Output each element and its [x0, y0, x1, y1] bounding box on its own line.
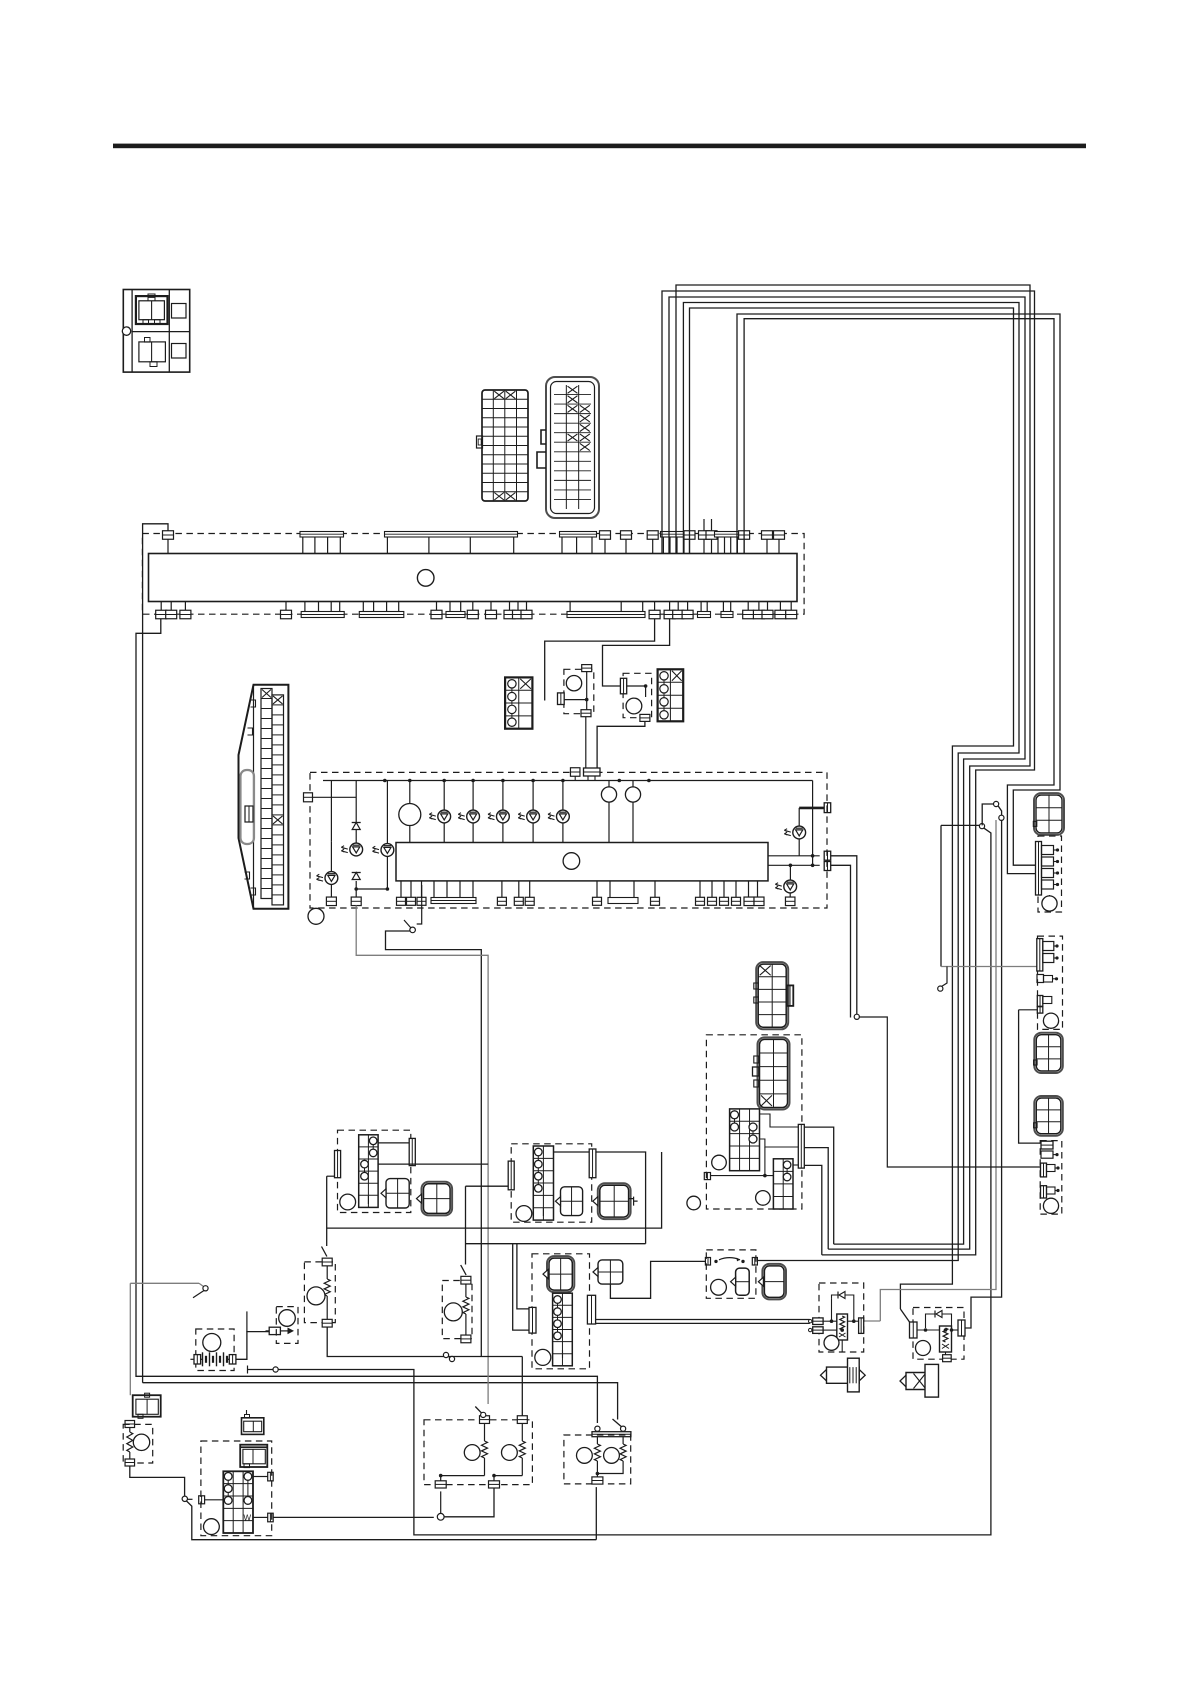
meter case ground circle: [308, 908, 324, 924]
relay unit R1 (top left): [123, 290, 189, 373]
flasher relay 2 dashed box: [442, 1281, 472, 1339]
horn top terminal: [125, 1421, 135, 1428]
flasher relay 1 dashed box: [304, 1262, 335, 1323]
flasher 1 coil wire: [326, 1266, 328, 1279]
diode unit D1 top terminal: [582, 665, 592, 672]
wire battery to fuse: [236, 1332, 269, 1360]
battery dashed box: [196, 1329, 234, 1371]
centre switch connector 1: [547, 1256, 574, 1292]
switch M wires: [554, 1151, 590, 1153]
harness top pin group 1: [300, 532, 344, 538]
centre switch dashed box: [532, 1254, 590, 1369]
starter relay coil: [940, 1326, 952, 1352]
wire to starter relay: [965, 820, 1002, 1328]
main switch ground circle: [204, 1519, 220, 1535]
ignition coil unit 1 dashed box: [1038, 836, 1062, 912]
harness bottom pin j1: [285, 602, 287, 611]
switch L ground circle: [340, 1194, 356, 1210]
engine stop connector: [736, 1268, 750, 1295]
main switch right terminal 2: [268, 1513, 274, 1522]
ignition coil 2 plug circle: [1043, 1013, 1058, 1028]
horn relay ground circle: [824, 1335, 839, 1350]
page header rule: [113, 144, 1086, 149]
starter relay right bar: [958, 1320, 965, 1336]
wire meter output 1 down: [831, 856, 857, 1014]
turn lamp 2: [521, 1424, 523, 1442]
warning LED w1: [330, 841, 332, 871]
left rail wire 1 lower run: [143, 1383, 618, 1420]
horn coil: [129, 1428, 131, 1433]
horn relay coil: [837, 1314, 848, 1340]
ignition coil 1 connector bar: [1036, 842, 1042, 896]
switch M right bar: [589, 1149, 596, 1178]
wires CDI to harness loops: [804, 1127, 833, 1244]
long crossover wire: [327, 1152, 662, 1228]
ignition switch grid: [223, 1471, 253, 1533]
bullet connector pair (harness right): [941, 824, 979, 826]
meter bottom pin row: [400, 881, 402, 897]
flasher 1 switch: [326, 1176, 328, 1246]
CDI connector right tab: [787, 985, 794, 1006]
harness top pin small g: [766, 540, 768, 554]
CDI right terminal bar: [798, 1124, 804, 1168]
turn lamp switch arm: [475, 1407, 481, 1414]
wire flasher feed: [465, 1186, 467, 1264]
harness top pin small b: [625, 540, 627, 554]
main switch left terminal: [199, 1496, 205, 1504]
wire meter output 2 down: [831, 865, 851, 1017]
tail lamp 1: [596, 1437, 598, 1444]
CDI ground circle: [712, 1155, 727, 1170]
turn lamp terminal 1: [480, 1416, 490, 1424]
switch L terminal strip: [359, 1135, 378, 1208]
diode unit D1 lamp circle: [566, 676, 581, 691]
battery cells: [202, 1352, 204, 1366]
starter relay switch arm: [900, 1309, 909, 1322]
main switch dashed box: [201, 1441, 272, 1536]
starter relay diode: [926, 1314, 952, 1328]
horn bracket connector: [133, 1395, 161, 1417]
centre switch right bar: [587, 1295, 595, 1324]
indicator LEDs row: [443, 781, 445, 811]
diode unit D2 dashed box: [623, 673, 652, 717]
harness top pin group 3: [560, 532, 597, 538]
meter right terminals: [824, 851, 831, 860]
mount hole circle: [122, 327, 130, 335]
centre switch connector 2: [598, 1260, 623, 1284]
wire harness to dimmer relay: [545, 619, 655, 701]
diode unit D1 left connector: [558, 693, 565, 705]
switch M connector small: [561, 1187, 583, 1216]
wire meter to magneto: [859, 1017, 1041, 1167]
wire stub with open end: [940, 825, 942, 966]
turn feed to lamp: [521, 1357, 523, 1416]
flasher 2 switch: [461, 1265, 466, 1275]
main connector key handle: [241, 770, 255, 844]
diode unit D2 lamp circle: [626, 698, 642, 714]
horn circle: [133, 1434, 149, 1450]
wire bus line P: [466, 1243, 646, 1245]
engine stop ground circle: [687, 1196, 701, 1210]
harness bottom pin j3: [472, 602, 474, 611]
wire main switch to brake lamp: [273, 1516, 434, 1518]
connector block A (top centre): [482, 390, 528, 501]
harness bottom pins j5: [509, 602, 511, 611]
main connector pin grid: [261, 689, 272, 899]
svg-text:W: W: [244, 1514, 252, 1523]
wire brake switch to rear: [386, 931, 482, 1357]
CDI mate connector: [758, 1037, 790, 1109]
horn relay right terminal: [859, 1318, 864, 1334]
centre switch ground circle: [535, 1349, 551, 1365]
warning LED w2: [350, 843, 363, 856]
switch L left bar: [335, 1151, 341, 1178]
horn relay dashed box: [819, 1283, 864, 1352]
harness top pin pair e: [699, 531, 710, 540]
harness bottom pin group 1: [304, 602, 306, 612]
main switch inner connector: [240, 1445, 267, 1467]
starter motor 1: [827, 1367, 860, 1383]
grey feed to ignition coil 2: [941, 966, 1037, 968]
horn relay wires: [823, 1320, 837, 1322]
wire D2 to panel pin: [597, 721, 645, 768]
harness top pin small h: [778, 540, 780, 554]
harness top pin group 4: [661, 532, 687, 538]
diode unit D2 bottom terminal: [640, 714, 650, 721]
harness top pin small d: [689, 540, 691, 554]
meter movement bar: [396, 843, 768, 881]
harness top pin small c: [652, 540, 654, 554]
harness bottom pin group 3: [449, 602, 451, 612]
wire horn to main switch: [130, 1466, 185, 1496]
left rail wire 2: [136, 619, 597, 1423]
CDI left terminal: [704, 1173, 710, 1180]
battery terminals: [194, 1355, 201, 1364]
switch M left bar: [508, 1161, 514, 1190]
turn lamp terminal 2: [517, 1416, 527, 1424]
flasher 1 bottom terminal: [322, 1319, 332, 1327]
tail lamp contacts: [595, 1426, 600, 1431]
pickup coil connector: [773, 1159, 793, 1209]
meter bold output: [799, 807, 824, 810]
battery circle: [203, 1334, 221, 1352]
turn signal feed wire: [327, 1327, 522, 1356]
main wire harness bar: [149, 554, 798, 602]
engine stop switch dashed box: [706, 1250, 756, 1298]
switch M terminal strip: [533, 1146, 553, 1220]
meter assembly dashed box: [310, 772, 827, 908]
wire loop F (to ignition coil): [737, 314, 1060, 865]
diode unit D2 left connector: [620, 678, 626, 694]
switch M ground circle: [516, 1206, 532, 1222]
meter lamps right pair: [608, 781, 610, 843]
starter relay left bar: [910, 1322, 918, 1338]
tail lamp top bar: [592, 1432, 631, 1437]
wire to horn relay (grey): [880, 820, 996, 1321]
harness bottom pin group 4 (long): [569, 602, 571, 612]
starter relay wires: [917, 1329, 940, 1331]
ignition coil 2 lower bars: [1037, 996, 1043, 1007]
ignition coil 2 small plug: [1037, 975, 1044, 983]
switch M right tab: [629, 1197, 638, 1206]
harness bottom pins right: [747, 602, 749, 611]
harness top pin (left single): [167, 540, 169, 554]
flasher 2 top terminal: [461, 1276, 471, 1284]
switch L wires: [378, 1142, 409, 1144]
main switch connector above: [242, 1418, 264, 1435]
turn lamp 1: [484, 1424, 486, 1442]
wire loop D: [669, 297, 1025, 1244]
magneto bars: [1041, 1141, 1053, 1149]
harness bottom pin group 2: [362, 602, 364, 612]
warning LED w5: [789, 865, 791, 880]
diode unit D1 wire: [586, 672, 588, 710]
harness inspection circle: [417, 570, 434, 587]
centre switch strip: [553, 1293, 573, 1366]
meter right outputs: [768, 855, 820, 857]
meter left terminal: [304, 793, 313, 802]
harness bottom pin group 5: [700, 602, 702, 612]
engine stop switch contacts: [714, 1260, 717, 1263]
main connector (left, multi-pin): [239, 685, 289, 909]
engine stop mate connector: [762, 1264, 786, 1300]
switch L right bar: [409, 1138, 415, 1165]
tail lamp switch arm 2: [613, 1419, 622, 1427]
CDI internal wires: [760, 1114, 799, 1127]
connector B side notch: [541, 430, 546, 444]
switch M connector large: [598, 1183, 631, 1219]
flasher 1 lamp circle: [307, 1287, 325, 1305]
main switch right terminal 1: [268, 1472, 274, 1481]
tail lamp dashed box: [564, 1435, 631, 1484]
diode d2: [352, 873, 360, 880]
connector G1 (right column): [1034, 793, 1064, 835]
CDI connector left tabs: [754, 983, 759, 989]
connector G5 (right column): [1034, 1096, 1063, 1136]
starter relay ground circle: [916, 1341, 931, 1356]
warning LED w4: [798, 808, 800, 826]
tail lamp 2: [622, 1437, 624, 1444]
wire D1 to panel pin: [585, 717, 587, 768]
wire meter to taillight (grey): [356, 906, 488, 1405]
connector block B (top centre right): [546, 377, 599, 518]
main feed wire end: [273, 1367, 278, 1372]
main fuse dashed box: [276, 1307, 298, 1344]
harness bottom pin j4: [490, 602, 492, 611]
harness top pin small a: [604, 540, 606, 554]
centre switch left bar: [529, 1307, 536, 1333]
ignition switch arm: [187, 1501, 597, 1540]
harness bottom pins mid: [654, 602, 656, 611]
fuse element: [269, 1327, 280, 1334]
connector G1 tab: [1033, 821, 1037, 826]
connector A latch tab: [477, 436, 483, 448]
wire harness to starter cut relay: [603, 619, 670, 686]
tail lamp bottom terminal: [592, 1477, 603, 1484]
meter top pins (from diode units): [570, 768, 580, 777]
meter feed bus: [323, 780, 813, 782]
meter branch wires: [330, 781, 332, 842]
diode unit D2 wire: [627, 685, 646, 687]
horn dashed box: [123, 1424, 153, 1463]
wire loop B: [683, 303, 1019, 1261]
flasher 2 bottom terminal: [461, 1335, 471, 1343]
diode unit D1 bottom terminal: [581, 710, 591, 717]
diode d1: [352, 823, 360, 830]
connector C2 (4x2, right): [658, 669, 684, 721]
ignition coil 2 connector bar: [1037, 939, 1043, 971]
meter movement circle: [563, 853, 580, 870]
wire from harness to left rail: [143, 524, 168, 1383]
wire switchbox link: [610, 1261, 705, 1298]
pickup ground circle: [756, 1191, 771, 1206]
harness top pin small f: [743, 540, 745, 554]
connector C1 (4x2, left): [505, 677, 532, 728]
horn bottom terminal: [125, 1459, 135, 1466]
starter motor 2: [906, 1373, 932, 1390]
front brake switch: [421, 885, 423, 918]
wire loop A (ignition feed): [690, 308, 1014, 1309]
horn relay diode: [832, 1295, 854, 1312]
harness bottom pins left: [160, 602, 162, 611]
starter relay dashed box: [913, 1308, 964, 1360]
battery stub left: [190, 1358, 194, 1360]
line P drop 2: [513, 1244, 529, 1330]
wire coil2 to magneto connector: [1019, 1010, 1040, 1143]
harness bottom pin group 6: [722, 602, 724, 612]
CDI terminal block: [730, 1109, 760, 1171]
engine stop ground circle 2: [711, 1279, 727, 1295]
meter illumination lamp: [409, 781, 411, 804]
engine stop terminals: [705, 1258, 710, 1266]
bullet connector pair 2: [982, 804, 993, 825]
horn feed wire (grey): [130, 1282, 199, 1284]
connector G4 (right column): [1034, 1033, 1063, 1073]
CDI unit dashed box: [706, 1035, 802, 1209]
switch L connector large: [422, 1182, 453, 1216]
harness top pin group 5: [715, 532, 741, 538]
turn lamps bottom wires: [441, 1476, 485, 1481]
harness bottom pin j2: [436, 602, 438, 611]
CDI connector (vertical, top): [756, 962, 788, 1029]
magneto unit dashed box: [1040, 1141, 1062, 1215]
tail lamp bottom wires: [597, 1470, 623, 1474]
wire loop C: [676, 285, 1030, 1249]
main wire harness dashed outline: [142, 534, 804, 615]
starter relay feed wires: [596, 1319, 810, 1321]
flasher 1 top terminal: [322, 1258, 332, 1266]
turn signal lamps dashed box: [424, 1420, 532, 1485]
handlebar switch M dashed box: [511, 1144, 592, 1222]
handlebar switch L dashed box: [338, 1130, 411, 1212]
fuse circle: [279, 1310, 296, 1327]
harness top pin group 2: [385, 532, 518, 538]
magneto plug circle: [1043, 1198, 1058, 1213]
taillight ground riser: [595, 1487, 597, 1540]
flasher 2 lamp circle: [444, 1303, 462, 1321]
ignition coil 1 plug circle: [1042, 896, 1057, 911]
meter bottom pins: [326, 897, 336, 906]
diode unit D1 dashed box: [564, 669, 594, 713]
wire loop E: [662, 291, 1035, 1255]
line P drop 1: [517, 1244, 529, 1309]
wire loop G (to ignition coil): [744, 319, 1054, 874]
warning LED w3: [381, 844, 394, 857]
starter relay bottom terminal: [945, 1352, 947, 1355]
switch L connector small: [386, 1179, 409, 1208]
flasher 2 coil wire: [465, 1284, 467, 1297]
horn relay left terminals: [813, 1318, 823, 1325]
ignition coil unit 2 dashed box: [1038, 936, 1063, 1029]
